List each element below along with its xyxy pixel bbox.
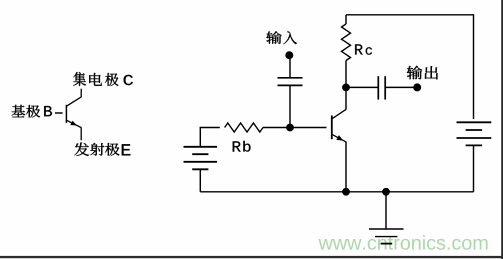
- wire: B1 bottom to bottom rail: [199, 169, 201, 192]
- watermark www.cntronics.com: [318, 235, 487, 250]
- node collector: [342, 84, 350, 92]
- wire: top rail and right side down to B2: [346, 15, 474, 119]
- node input terminal: [285, 51, 293, 59]
- wire: collector node to C2: [346, 86, 378, 88]
- battery B2 (supply battery, right): [457, 122, 492, 145]
- node output terminal: [413, 83, 421, 91]
- label Rb: [233, 141, 251, 152]
- wire: base lead of legend transistor: [55, 112, 63, 114]
- battery B1 (bias battery, left): [184, 147, 218, 170]
- transistor legend NPN symbol: [66, 89, 81, 141]
- wire: Rc bottom to collector node: [345, 61, 347, 88]
- node base junction: [286, 124, 294, 132]
- wire: base node to Q1 base: [290, 127, 327, 129]
- wire: Q1 collector up to collector node: [345, 87, 347, 109]
- label Rc: [355, 44, 372, 54]
- wire: C1 to base node: [289, 85, 291, 127]
- wire: input terminal to C1: [289, 55, 291, 77]
- transistor Q1 (NPN): [332, 109, 346, 141]
- wire: B1 top to Rb: [200, 128, 220, 147]
- node emitter junction: [342, 188, 350, 196]
- resistor Rb: [225, 123, 263, 132]
- wire: B2 bottom to bottom rail: [473, 145, 475, 191]
- wire: bottom rail: [200, 191, 473, 193]
- label 发射极E (emitter E): [74, 142, 130, 156]
- wire: Q1 emitter down to bottom rail: [345, 142, 347, 192]
- node ground junction: [382, 188, 390, 196]
- wire: junction to ground: [385, 192, 387, 229]
- label 集电极C (collector C): [73, 72, 133, 86]
- label 基极B (base B): [12, 105, 52, 118]
- wire: C2 to output terminal: [386, 86, 417, 88]
- border shadow right: [501, 0, 503, 259]
- wire: Rc top to top rail: [345, 15, 347, 24]
- wire: Rb to base node: [263, 127, 290, 129]
- resistor Rc: [342, 24, 351, 61]
- capacitor C2 (output coupling): [378, 76, 385, 99]
- label 输出 (output): [407, 66, 438, 80]
- ground: [369, 229, 404, 244]
- border shadow bottom: [0, 256, 503, 258]
- label 输入 (input): [266, 31, 297, 44]
- capacitor C1 (input coupling): [278, 78, 303, 86]
